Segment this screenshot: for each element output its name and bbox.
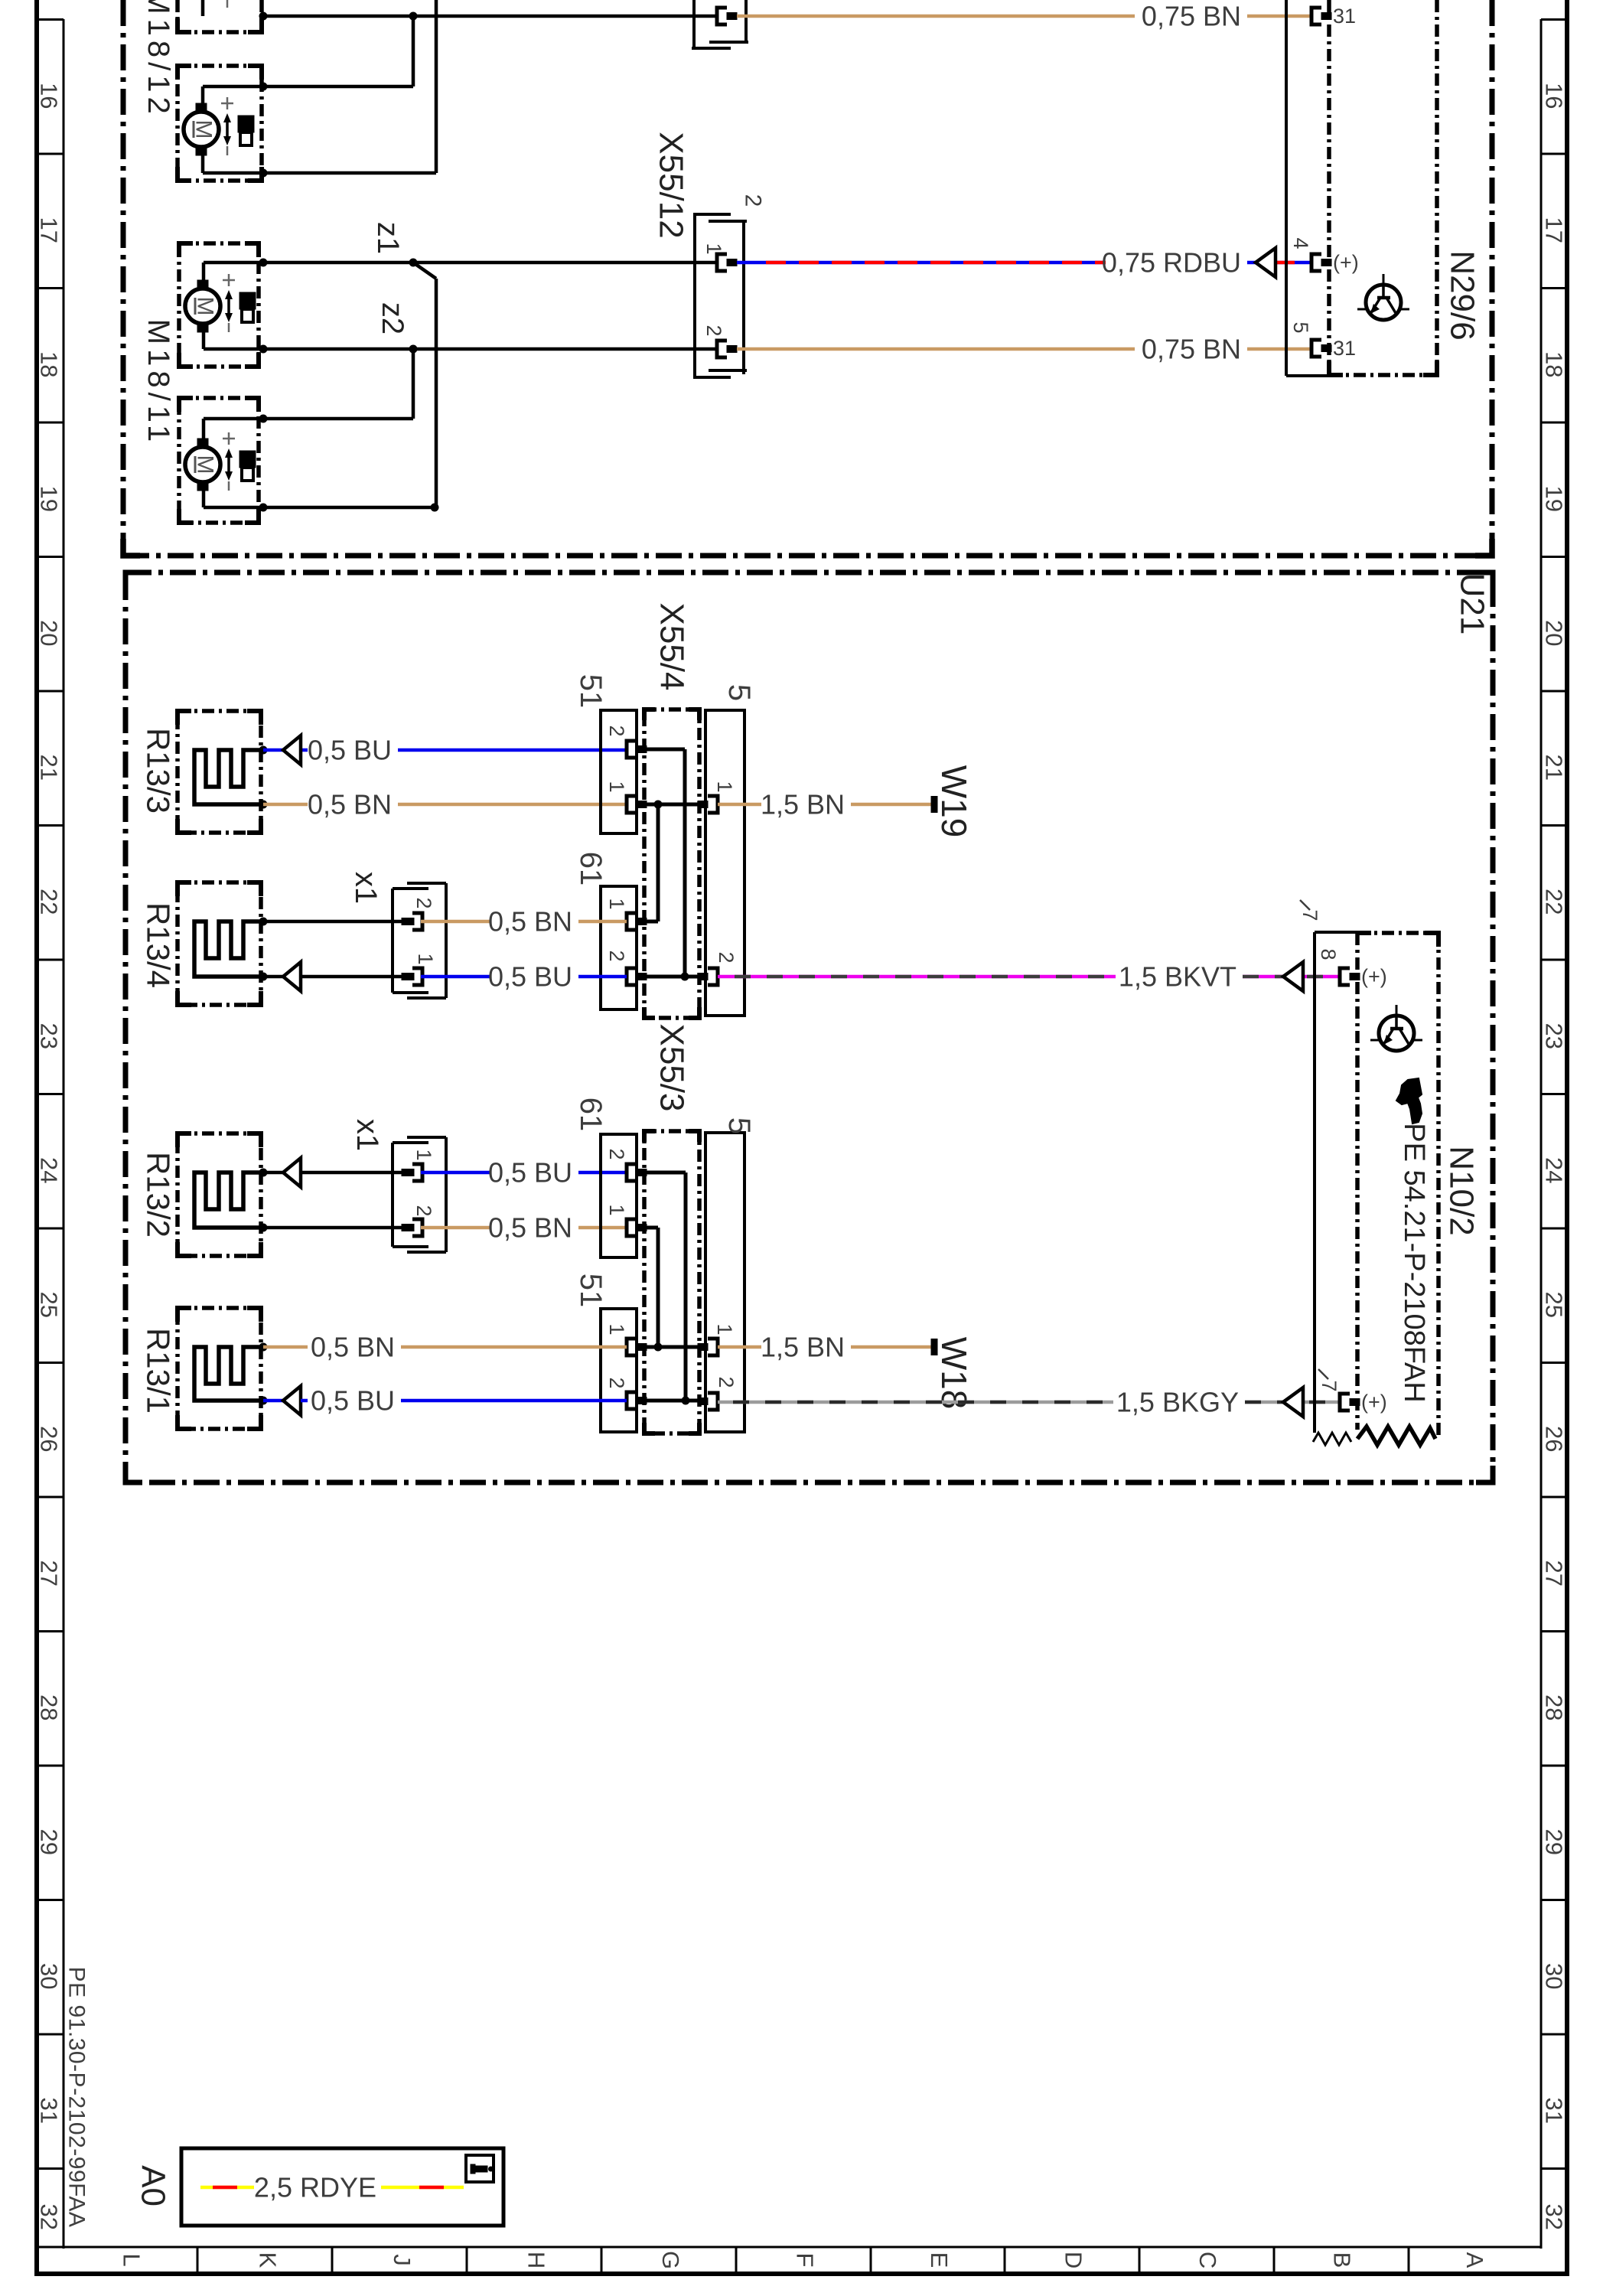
- wire internal BU link: [647, 749, 685, 977]
- pump motor M18/11 upper: [185, 274, 256, 332]
- svg-text:22: 22: [36, 889, 63, 915]
- svg-text:0,5 BN: 0,5 BN: [308, 789, 392, 820]
- svg-text:1,5 BN: 1,5 BN: [761, 1332, 845, 1363]
- motor M18/12 upper lead (partial): [203, 0, 227, 16]
- svg-text:G: G: [657, 2251, 684, 2269]
- wire z2 to X55/12 pin 2: [413, 347, 717, 351]
- pin N29/6.4: [1311, 254, 1331, 271]
- svg-text:28: 28: [36, 1694, 63, 1720]
- svg-text:4: 4: [1289, 237, 1312, 249]
- pin X55/4 51.1: [627, 796, 647, 813]
- control unit N10/2 boundary box: [1357, 933, 1438, 1437]
- svg-text:19: 19: [1541, 486, 1568, 512]
- svg-text:2: 2: [605, 725, 628, 736]
- svg-text:7: 7: [1318, 1380, 1341, 1391]
- svg-text:M: M: [191, 120, 217, 139]
- wire: [203, 147, 263, 173]
- svg-text:26: 26: [36, 1426, 63, 1452]
- wire: [301, 975, 402, 979]
- svg-text:0,5 BU: 0,5 BU: [488, 1157, 572, 1189]
- svg-text:31: 31: [1333, 337, 1356, 360]
- junction: [431, 504, 439, 512]
- pin number 7: [1318, 1369, 1341, 1392]
- connector X55/11 (cut at top): [692, 0, 748, 49]
- svg-text:1: 1: [412, 1149, 435, 1160]
- junction: [682, 1397, 690, 1405]
- svg-text:22: 22: [1541, 889, 1568, 915]
- pump motor M18/12: [184, 97, 254, 155]
- pin X55/3 61.1: [627, 1219, 647, 1236]
- svg-text:X55/3: X55/3: [653, 1024, 691, 1112]
- heater element R13/3: [194, 750, 261, 804]
- connector block 61 of X55/4: [601, 886, 637, 1009]
- wire 1,5 BKGY: [1245, 1401, 1340, 1404]
- wire 0,5 BU: [578, 1171, 627, 1175]
- wire: [204, 482, 263, 507]
- wire: [263, 349, 413, 419]
- wire 0,75 RDBU: [1247, 261, 1311, 265]
- pin x1.2: [402, 913, 422, 930]
- pin X55/12.1: [717, 254, 737, 271]
- component box R13/3: [178, 711, 261, 833]
- wire: [263, 15, 413, 18]
- svg-text:X55/12: X55/12: [653, 132, 690, 238]
- component box R13/1: [178, 1308, 261, 1429]
- svg-text:30: 30: [36, 1963, 63, 1989]
- junction: [259, 918, 268, 926]
- wire 0,75 BN: [737, 347, 1135, 351]
- svg-text:51: 51: [574, 674, 608, 709]
- junction: [259, 259, 268, 267]
- assembly boundary box (seat adjustment unit, cut at top): [123, 0, 1492, 556]
- wire 1,5 BN: [851, 1345, 931, 1349]
- junction: [654, 1343, 663, 1352]
- svg-text:0,5 BN: 0,5 BN: [488, 906, 572, 938]
- connector block 5 of X55/3: [705, 1133, 744, 1432]
- junction: [259, 83, 268, 91]
- wire internal BN link: [647, 803, 701, 807]
- wire sample 2,5 RDYE: [381, 2186, 464, 2190]
- wire: [263, 0, 436, 173]
- wire internal BN link: [647, 1228, 658, 1347]
- wire sample 2,5 RDYE: [200, 2186, 254, 2190]
- svg-text:E: E: [926, 2252, 953, 2268]
- wire 1,5 BN to W18: [718, 1345, 761, 1349]
- svg-text:M: M: [193, 297, 218, 316]
- connector coding label 7: [1298, 900, 1321, 921]
- svg-text:1: 1: [414, 953, 437, 964]
- junction: [259, 1397, 268, 1405]
- pin X55/4 5.2: [698, 968, 718, 985]
- svg-text:7: 7: [1298, 909, 1321, 921]
- svg-text:K: K: [255, 2252, 282, 2268]
- svg-text:x1: x1: [350, 1119, 384, 1151]
- svg-text:PE 54.21-P-2108FAH: PE 54.21-P-2108FAH: [1398, 1123, 1430, 1402]
- wire 0,5 BU: [263, 748, 308, 752]
- electronic control symbol (transistor) N29/6: [1357, 274, 1409, 320]
- junction node z2: [409, 345, 418, 354]
- svg-text:0,5 BU: 0,5 BU: [308, 735, 392, 766]
- svg-text:0,75 RDBU: 0,75 RDBU: [1102, 247, 1241, 279]
- connector block 51 of X55/3: [601, 1309, 637, 1432]
- wire 0,5 BN: [263, 803, 308, 807]
- connector x1 (R13/2): [393, 1137, 446, 1252]
- direction arrow: [1283, 1388, 1303, 1417]
- svg-text:21: 21: [1541, 755, 1568, 781]
- control unit U21 boundary box: [125, 572, 1493, 1482]
- svg-text:M18/11: M18/11: [142, 319, 175, 446]
- svg-text:0,75 BN: 0,75 BN: [1142, 1, 1241, 32]
- legend box A0: [181, 2148, 503, 2226]
- junction node z1: [409, 259, 418, 267]
- wire 0,5 BU: [421, 1171, 490, 1175]
- svg-text:2: 2: [715, 951, 738, 963]
- wire node z1: [263, 261, 413, 265]
- pin X55/4 51.2: [627, 741, 647, 758]
- wire 0,5 BU: [578, 975, 627, 979]
- wire: [413, 15, 717, 18]
- control unit N10/2 connector strip: [1313, 932, 1357, 1445]
- wire internal BU link: [647, 975, 701, 979]
- component box M18/11 lower motor: [179, 398, 259, 523]
- svg-text:(+): (+): [1361, 965, 1387, 988]
- wire 0,5 BN: [578, 1226, 627, 1230]
- direction arrow: [283, 962, 301, 991]
- svg-text:(+): (+): [1361, 1391, 1387, 1414]
- wire 0,5 BN: [421, 920, 490, 924]
- svg-text:0,5 BU: 0,5 BU: [311, 1385, 395, 1417]
- junction: [259, 1224, 268, 1232]
- svg-text:5: 5: [1289, 321, 1312, 333]
- svg-text:20: 20: [1541, 620, 1568, 646]
- pin X55/3 51.1: [627, 1339, 647, 1355]
- control unit N29/6 boundary box (cut at top): [1329, 0, 1437, 375]
- svg-text:N10/2: N10/2: [1443, 1146, 1481, 1235]
- pin X55/3 61.2: [627, 1164, 647, 1181]
- junction: [654, 801, 663, 809]
- svg-text:U21: U21: [1454, 573, 1491, 635]
- svg-text:8: 8: [1317, 948, 1340, 960]
- svg-text:31: 31: [1541, 2098, 1568, 2124]
- junction: [259, 1343, 268, 1352]
- svg-text:17: 17: [1541, 217, 1568, 243]
- svg-text:2: 2: [715, 1376, 738, 1388]
- junction: [259, 1169, 268, 1177]
- svg-text:F: F: [792, 2253, 819, 2268]
- junction: [681, 973, 689, 981]
- ground terminal W19: [931, 796, 938, 813]
- svg-text:0,75 BN: 0,75 BN: [1142, 334, 1241, 365]
- wire: [301, 1171, 402, 1175]
- svg-text:PE 91.30-P-2102-99FAA: PE 91.30-P-2102-99FAA: [64, 1967, 90, 2228]
- svg-text:1: 1: [713, 781, 736, 792]
- svg-text:0,5 BN: 0,5 BN: [488, 1212, 572, 1244]
- pump motor M18/11 lower: [185, 432, 256, 491]
- connector X55/3 boundary: [644, 1131, 699, 1433]
- svg-text:X55/4: X55/4: [653, 603, 691, 691]
- svg-text:26: 26: [1541, 1426, 1568, 1452]
- wire: [203, 86, 263, 112]
- svg-text:1: 1: [713, 1323, 736, 1335]
- direction arrow: [283, 1158, 301, 1187]
- svg-text:2: 2: [605, 950, 628, 961]
- svg-text:23: 23: [1541, 1023, 1568, 1049]
- connector X55/4 boundary: [644, 709, 699, 1018]
- svg-text:2: 2: [605, 1148, 628, 1159]
- svg-text:32: 32: [1541, 2204, 1568, 2230]
- wire 0,75 RDBU: [737, 261, 1106, 265]
- svg-text:D: D: [1061, 2252, 1087, 2268]
- svg-text:1: 1: [605, 1204, 628, 1215]
- pin x1.2: [402, 1219, 422, 1236]
- control unit N29/6 connector strip: [1286, 0, 1329, 376]
- svg-text:N29/6: N29/6: [1444, 250, 1481, 340]
- direction arrow: [1283, 962, 1303, 991]
- svg-text:20: 20: [36, 620, 63, 646]
- svg-text:18: 18: [1541, 351, 1568, 377]
- svg-text:25: 25: [1541, 1292, 1568, 1318]
- svg-text:24: 24: [36, 1157, 63, 1183]
- wire: [204, 263, 263, 289]
- svg-text:B: B: [1329, 2252, 1356, 2268]
- svg-text:18: 18: [36, 351, 63, 377]
- svg-text:R13/4: R13/4: [141, 902, 177, 988]
- direction arrow: [1256, 248, 1276, 277]
- heater element R13/1: [194, 1347, 261, 1401]
- wire 0,5 BN: [398, 803, 627, 807]
- heater element R13/4: [194, 921, 261, 977]
- svg-text:27: 27: [1541, 1561, 1568, 1587]
- wire internal BN link: [647, 1345, 701, 1349]
- svg-text:C: C: [1194, 2252, 1221, 2268]
- junction: [259, 801, 268, 809]
- svg-text:2: 2: [605, 1377, 628, 1388]
- wire: [263, 1171, 283, 1175]
- pin X55/4 5.1: [698, 796, 718, 813]
- direction arrow: [283, 735, 301, 765]
- junction: [259, 169, 268, 178]
- wire 1,5 BN: [851, 803, 931, 807]
- svg-text:5: 5: [722, 684, 756, 701]
- connector block 51 of X55/4: [601, 710, 637, 833]
- component box R13/4: [178, 882, 261, 1005]
- svg-text:R13/3: R13/3: [141, 728, 177, 814]
- ground terminal W18: [931, 1339, 938, 1355]
- svg-text:27: 27: [36, 1561, 63, 1587]
- pin N10/2.8: [1340, 968, 1360, 985]
- pin X55/4 61.2: [627, 968, 647, 985]
- wire: [204, 324, 263, 349]
- component box M18/12 upper motor (cut at top): [178, 0, 262, 34]
- wire: [204, 419, 263, 447]
- svg-text:30: 30: [1541, 1963, 1568, 1989]
- svg-text:M: M: [193, 455, 218, 475]
- wire 0,5 BN: [421, 1226, 490, 1230]
- pin X55/4 61.1: [627, 913, 647, 930]
- wire 0,5 BU: [401, 1399, 627, 1403]
- heater element R13/2: [194, 1172, 261, 1228]
- direction arrow: [283, 1386, 301, 1415]
- junction: [409, 12, 418, 21]
- svg-text:A: A: [1461, 2252, 1488, 2268]
- junction: [259, 415, 268, 423]
- wire 0,5 BN: [401, 1345, 627, 1349]
- pin N29/6.5: [1311, 340, 1331, 357]
- component box M18/11 upper motor: [179, 243, 259, 367]
- svg-text:1: 1: [605, 1323, 628, 1335]
- wire z1 to X55/12 pin 1: [413, 261, 717, 265]
- junction: [259, 973, 268, 981]
- svg-text:2: 2: [412, 1205, 435, 1216]
- svg-text:28: 28: [1541, 1694, 1568, 1720]
- svg-text:W19: W19: [934, 765, 974, 838]
- svg-text:25: 25: [36, 1292, 63, 1318]
- pin X55/12.2: [717, 341, 737, 357]
- pin x1.1: [402, 1164, 422, 1181]
- electronic control symbol (transistor) N10/2: [1370, 1005, 1422, 1051]
- wire 0,5 BU: [398, 748, 627, 752]
- wire 1,5 BKVT: [718, 975, 1116, 979]
- wire 0,75 BN: [737, 15, 1135, 18]
- wire 0,5 BN: [263, 1345, 308, 1349]
- junction: [259, 504, 268, 512]
- wire z1 branch: [413, 263, 436, 507]
- svg-text:29: 29: [36, 1829, 63, 1855]
- svg-text:16: 16: [36, 83, 63, 109]
- connector block 5 of X55/4: [705, 710, 744, 1016]
- svg-text:1: 1: [605, 781, 628, 792]
- svg-text:0,5 BN: 0,5 BN: [311, 1332, 395, 1363]
- svg-text:x1: x1: [349, 872, 383, 904]
- svg-text:L: L: [119, 2253, 145, 2266]
- pin N10/2.7: [1340, 1394, 1360, 1411]
- wire node z2: [263, 347, 413, 351]
- svg-text:M18/12: M18/12: [142, 0, 175, 119]
- break line (zigzag): [1357, 1427, 1435, 1445]
- wire 1,5 BKGY: [718, 1401, 1113, 1404]
- svg-text:2: 2: [412, 897, 435, 908]
- svg-text:31: 31: [36, 2098, 63, 2124]
- svg-text:32: 32: [36, 2204, 63, 2230]
- svg-text:31: 31: [1333, 5, 1356, 28]
- svg-text:A0: A0: [135, 2165, 172, 2206]
- svg-text:R13/1: R13/1: [141, 1328, 177, 1414]
- svg-text:H: H: [523, 2252, 550, 2268]
- wire 0,75 BN: [1247, 347, 1311, 351]
- connector X55/12: [693, 213, 747, 379]
- wire internal BU link: [647, 1172, 686, 1401]
- wire 0,5 BU: [301, 1399, 308, 1403]
- junction: [259, 345, 268, 354]
- svg-text:24: 24: [1541, 1157, 1568, 1183]
- svg-text:51: 51: [574, 1274, 608, 1308]
- svg-text:23: 23: [36, 1023, 63, 1049]
- svg-text:1,5 BKVT: 1,5 BKVT: [1119, 961, 1236, 993]
- pointing hand note icon: [1396, 1078, 1422, 1124]
- wire: [263, 920, 402, 924]
- junction: [259, 746, 268, 755]
- svg-text:(+): (+): [1333, 251, 1359, 274]
- wire: [263, 16, 413, 86]
- component box M18/12 lower motor: [178, 66, 262, 181]
- svg-text:1: 1: [605, 898, 628, 909]
- connector block 61 of X55/3: [601, 1134, 637, 1257]
- wire internal BN link: [647, 804, 658, 921]
- svg-text:16: 16: [1541, 83, 1568, 109]
- svg-text:0,5 BU: 0,5 BU: [488, 961, 572, 993]
- svg-text:R13/2: R13/2: [141, 1152, 177, 1238]
- pin X55/3 51.2: [627, 1392, 647, 1409]
- svg-text:29: 29: [1541, 1829, 1568, 1855]
- svg-text:61: 61: [574, 1097, 608, 1132]
- svg-text:J: J: [389, 2254, 415, 2266]
- svg-text:2: 2: [741, 194, 766, 207]
- wire: [263, 975, 283, 979]
- component box R13/2: [178, 1133, 261, 1256]
- wire 1,5 BN to W19: [718, 803, 761, 807]
- svg-text:W18: W18: [934, 1337, 974, 1410]
- svg-text:z2: z2: [376, 302, 409, 334]
- wire internal BU link: [647, 1399, 702, 1403]
- svg-text:2: 2: [702, 325, 725, 336]
- info icon: [466, 2155, 494, 2182]
- svg-text:1,5 BN: 1,5 BN: [761, 789, 845, 820]
- pin X55/3 5.2: [698, 1393, 718, 1410]
- wire 1,5 BKVT: [1243, 975, 1340, 979]
- svg-text:61: 61: [574, 852, 608, 886]
- wire: [263, 506, 436, 510]
- wire 0,5 BU: [421, 975, 490, 979]
- connector x1 (R13/4): [393, 883, 446, 998]
- svg-text:2,5 RDYE: 2,5 RDYE: [254, 2172, 376, 2203]
- svg-text:1,5 BKGY: 1,5 BKGY: [1116, 1387, 1239, 1418]
- svg-text:17: 17: [36, 217, 63, 243]
- junction: [259, 12, 268, 21]
- wire 0,5 BU: [263, 1399, 283, 1403]
- svg-text:21: 21: [36, 755, 63, 781]
- svg-text:5: 5: [722, 1117, 756, 1134]
- pin x1.1: [402, 968, 422, 985]
- wire 0,5 BN: [578, 920, 627, 924]
- svg-text:z1: z1: [371, 222, 405, 254]
- wire 0,75 BN: [1247, 15, 1311, 18]
- wire: [263, 1226, 402, 1230]
- pin X55/3 5.1: [698, 1339, 718, 1355]
- svg-text:19: 19: [36, 486, 63, 512]
- pin N29/6 terminal 31 (top): [1311, 8, 1331, 24]
- pin X55/11.2: [717, 8, 737, 24]
